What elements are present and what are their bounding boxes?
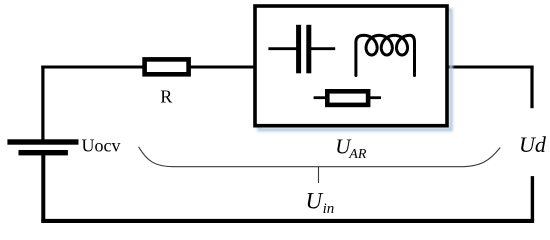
wire right upper stub — [530, 66, 533, 109]
svg-text:Uocv: Uocv — [82, 136, 121, 156]
resistor R — [145, 59, 189, 74]
inductor coil — [356, 35, 415, 75]
wire left vertical upper — [41, 66, 44, 142]
battery Uocv bottom plate — [19, 150, 68, 155]
svg-text:Ud: Ud — [519, 132, 547, 157]
wire box to top-right corner — [446, 66, 534, 69]
brace curve — [139, 147, 501, 167]
capacitor left plate — [296, 25, 301, 74]
inner resistor body — [327, 91, 368, 105]
wire top-left horizontal — [41, 66, 256, 69]
capacitor left lead — [268, 47, 296, 50]
svg-text:U: U — [306, 189, 324, 214]
battery Uocv top plate — [7, 139, 78, 144]
wire bottom horizontal — [41, 219, 534, 223]
wire right lower stub — [531, 176, 534, 222]
inner resistor leads — [314, 96, 327, 99]
capacitor right lead — [311, 47, 335, 50]
brace tick — [318, 167, 320, 183]
svg-text:in: in — [323, 201, 335, 217]
capacitor right plate — [306, 25, 311, 74]
svg-text:AR: AR — [348, 147, 367, 162]
svg-text:R: R — [160, 86, 172, 106]
box U_AR outline — [255, 6, 447, 126]
wire left vertical lower — [41, 152, 45, 223]
